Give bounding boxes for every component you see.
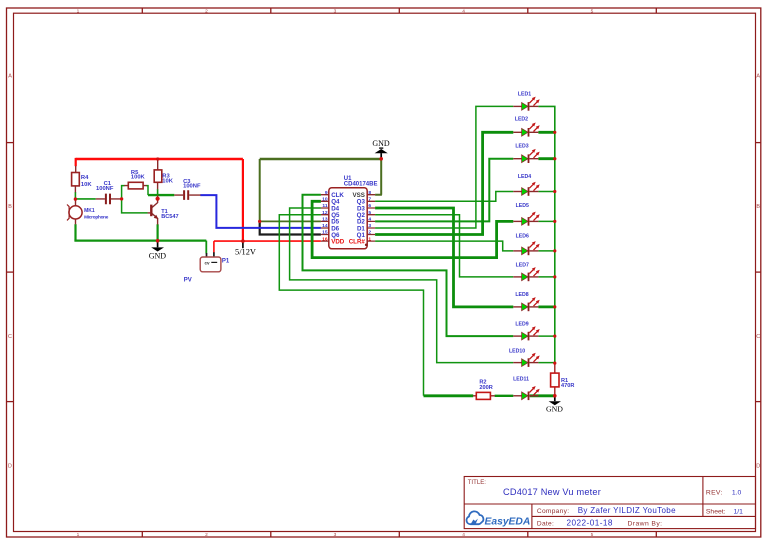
svg-text:CD4017 New Vu meter: CD4017 New Vu meter [503,487,601,497]
title block texts [468,479,743,528]
svg-text:7: 7 [368,197,371,203]
wire: +V top rail (red) [76,158,243,166]
label T1 BC547 [161,209,178,220]
svg-text:Drawn By:: Drawn By: [628,521,663,528]
ground symbol at R1 bottom [546,396,563,414]
label R3 value [162,174,173,185]
svg-text:CD40174BE: CD40174BE [344,181,378,187]
svg-text:Company:: Company: [537,508,569,515]
wire: D2 net to LED3 (green) [375,159,513,222]
wire: LED10 cathode [538,362,554,364]
wire: Q1 net to LED2 (thick green) [375,132,513,234]
svg-text:B: B [756,204,760,210]
svg-text:cv: cv [205,260,211,265]
wire: D1 net to LED1 (green) [375,106,513,228]
LED LED10 [513,353,539,367]
svg-text:9: 9 [325,190,328,196]
ground symbol at VSS (flipped, above wire) [372,139,390,159]
wire: T1 emitter to rail (green) [157,224,159,240]
svg-text:2022-01-18: 2022-01-18 [567,519,613,528]
wire: D5 row (dark olive) [260,220,321,222]
resistor R4 [72,166,80,192]
svg-text:A: A [756,74,760,80]
svg-text:16: 16 [322,236,328,242]
wire: node to C1 (green) [75,198,95,200]
LED LED2 [513,123,539,137]
LED LED8 [513,297,539,311]
IC U1 CD40174BE body [321,188,375,249]
svg-text:C: C [8,334,12,340]
svg-text:D: D [8,464,12,470]
wire: LED9 cathode [538,335,554,337]
svg-text:GND: GND [546,404,563,413]
svg-text:1: 1 [77,9,80,15]
label C1 value [96,181,114,192]
wire: LED5 cathode [538,220,554,222]
label R4 value [81,175,92,188]
svg-text:LED10: LED10 [509,348,525,354]
svg-text:8: 8 [368,190,371,196]
resistor R5 [124,182,146,189]
svg-text:100K: 100K [131,175,146,181]
svg-text:10K: 10K [81,182,92,188]
LED LED1 [513,97,539,111]
svg-text:EasyEDA: EasyEDA [485,516,531,527]
svg-text:D: D [756,464,760,470]
svg-text:A: A [8,74,12,80]
wire: GND to D5 vertical (dark olive) [259,159,261,221]
label R1 value [561,378,574,389]
capacitor C3 [174,190,200,200]
title block [464,477,755,529]
resistor R1 [551,363,559,396]
wire: LED3 cathode [538,157,554,160]
svg-text:2: 2 [205,532,208,538]
svg-text:4: 4 [368,217,371,223]
wire: Q6 black net [259,221,321,234]
wire: collector node to C3 (thick green) [148,194,174,196]
wire: LED11 row to R2 (thick green) [424,394,474,397]
wire: bottom ground rail (green) [74,240,206,242]
wire: P1 left pin to rail (green) [205,241,207,254]
LED LED7 [513,267,539,281]
svg-text:200R: 200R [479,385,492,391]
wire: Q4 net to LED5 (thick green) [312,201,513,257]
svg-text:4: 4 [462,9,465,15]
svg-text:14: 14 [322,223,328,229]
wire: R4 bottom to mic node (green) [74,192,76,199]
svg-text:BC547: BC547 [161,214,178,220]
capacitor C1 [96,194,122,205]
svg-text:PV: PV [184,278,192,284]
svg-text:10: 10 [322,197,328,203]
wire: 5/12V vertical (red) [242,159,244,241]
wire: C3 to D6 (blue) [200,195,321,228]
svg-text:1: 1 [368,236,371,242]
svg-text:LED11: LED11 [513,376,529,382]
svg-text:1: 1 [77,532,80,538]
svg-text:4: 4 [462,532,465,538]
svg-text:470R: 470R [561,383,574,389]
svg-text:100NF: 100NF [96,186,114,192]
svg-text:2: 2 [205,9,208,15]
svg-text:By Zafer YILDIZ YouTobe: By Zafer YILDIZ YouTobe [578,506,676,515]
svg-text:11: 11 [322,203,327,209]
wire: LED cathode rail (green) [538,106,554,363]
svg-text:12: 12 [322,210,328,216]
svg-text:5: 5 [368,210,371,216]
svg-text:5: 5 [591,532,594,538]
svg-text:100NF: 100NF [183,184,201,190]
net flag 5/12V [235,241,256,257]
svg-text:Date:: Date: [537,521,554,528]
connector P1 [200,252,221,272]
svg-text:GND: GND [372,139,390,148]
svg-text:LED7: LED7 [516,262,529,268]
LED LED6 [513,241,539,255]
svg-text:LED5: LED5 [516,203,529,209]
svg-text:REV:: REV: [706,489,723,496]
transistor T1 [148,195,159,224]
LED LED9 [513,326,539,340]
wire: C1 node to R5 left (green) [122,186,148,213]
label C3 value [183,179,201,190]
svg-text:5: 5 [591,9,594,15]
label R5 value [131,170,146,181]
svg-text:1/1: 1/1 [734,508,744,515]
svg-text:LED2: LED2 [515,117,528,123]
wire: mic bottom to ground rail (green) [74,224,76,240]
wire: Q3 net to LED4 (green) [375,192,513,202]
wire: LED4 cathode [538,191,554,193]
svg-text:3: 3 [334,9,337,15]
wire: Q2 net to LED7 (green) [375,215,513,277]
svg-text:LED9: LED9 [515,321,528,327]
svg-text:10K: 10K [162,179,173,185]
label MK1 Microphone [84,208,109,219]
svg-text:6: 6 [368,203,371,209]
svg-text:Microphone: Microphone [84,214,109,219]
svg-text:LED3: LED3 [515,143,528,149]
LED LED5 [513,212,539,226]
wire: R2 right to LED11 (green) [495,395,514,397]
svg-text:P1: P1 [222,258,230,264]
LED LED3 [513,149,539,163]
svg-text:2: 2 [368,230,371,236]
IC pin numbers right 1-8 [368,190,371,242]
wire: CLR net to LED6 (green) [375,241,513,251]
ground symbol at T1 emitter [149,241,167,261]
wire: LED11 cathode to R1 bottom [530,394,555,397]
wire: R5 right down to collector (green) [146,186,148,196]
IC pin numbers left 9-16 [322,190,328,242]
svg-text:C: C [756,334,760,340]
wire: LED7 cathode [538,276,554,278]
svg-text:MK1: MK1 [84,208,95,214]
LED LED4 [513,182,539,196]
wire: LED8 cathode [538,305,554,308]
svg-text:GND: GND [149,251,167,260]
svg-text:B: B [8,204,12,210]
svg-text:1.0: 1.0 [732,489,742,496]
svg-text:LED6: LED6 [516,233,529,239]
IC pin labels left [331,192,344,239]
svg-text:VDD: VDD [331,238,345,245]
resistor R2 [473,392,495,399]
wire: LED6 cathode [538,250,554,252]
svg-text:TITLE:: TITLE: [468,479,487,486]
svg-text:3: 3 [334,532,337,538]
IC pin labels right [353,192,366,239]
EasyEDA logo [467,511,531,527]
svg-text:3: 3 [368,223,371,229]
LED LED11 [513,386,539,400]
wire: GND top horizontal (dark olive) [260,158,382,160]
wire: Q5 net to R2/LED11 (green) [279,215,423,396]
svg-text:5/12V: 5/12V [235,248,256,257]
wire: D4 net to LED10 (green) [290,208,514,363]
wire: D3 net to LED8 (thick green) [375,208,513,307]
svg-text:15: 15 [322,230,328,236]
svg-text:LED4: LED4 [518,174,531,180]
microphone MK1 [67,199,82,224]
label R2 value [479,380,492,391]
svg-text:LED1: LED1 [518,91,531,97]
wire: LED2 cathode [538,131,554,134]
svg-text:13: 13 [322,217,328,223]
svg-text:CLR#: CLR# [349,238,366,245]
wire: CLK net IC to LED9 (green) [303,195,514,336]
resistor R3 [154,160,162,190]
wire: R3 bottom green stub [157,189,159,195]
wire: GND symbol to VSS pin (dark olive) [375,159,382,195]
svg-text:Sheet:: Sheet: [706,508,726,515]
wire: VDD row P1 to IC pin16 (red) [214,241,321,252]
label U1 CD40174BE [344,176,378,188]
svg-text:LED8: LED8 [515,292,528,298]
svg-text:R4: R4 [81,175,89,181]
